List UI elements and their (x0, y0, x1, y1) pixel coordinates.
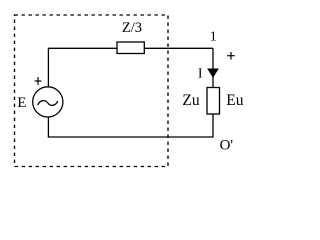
polarity + at source (35, 77, 42, 85)
current arrow I (down) (207, 69, 219, 79)
resistor Z/3 (117, 42, 144, 54)
svg-text:1: 1 (210, 29, 217, 44)
svg-text:I: I (198, 66, 203, 81)
wire: right vertical from node 1 down to load (212, 48, 214, 87)
svg-text:Zu: Zu (182, 92, 199, 109)
svg-text:Z/3: Z/3 (122, 20, 142, 36)
svg-text:O': O' (220, 138, 234, 154)
load impedance Zu (207, 88, 220, 115)
sine symbol inside source (38, 101, 58, 106)
wire: source top up and across to node 1 (48, 48, 213, 87)
svg-text:E: E (17, 95, 26, 111)
wire: load bottom to node O' corner and bottom return to source (48, 114, 213, 137)
svg-text:Eu: Eu (226, 92, 243, 109)
AC source E (33, 87, 63, 117)
polarity + at load top (227, 52, 235, 60)
dashed boundary box (source network) (15, 15, 169, 167)
